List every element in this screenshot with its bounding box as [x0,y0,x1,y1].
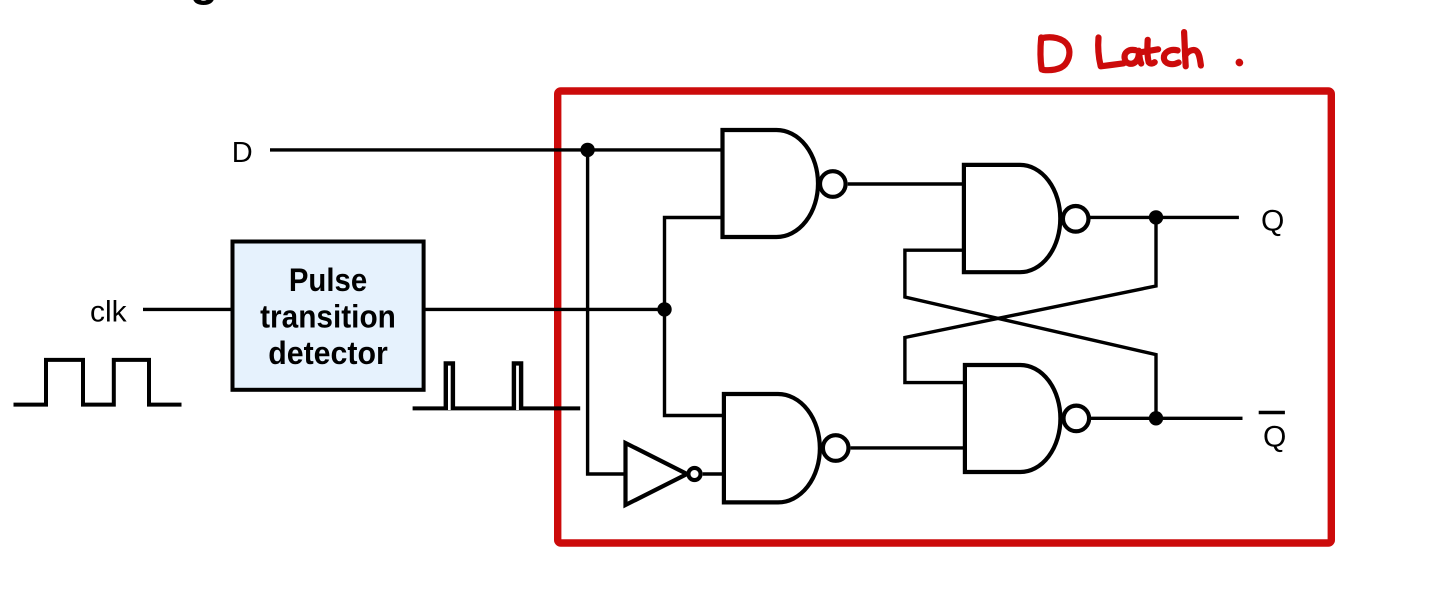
wire Qbar feedback to U2 [905,250,1156,418]
node Qbar junction [1149,411,1163,425]
NAND gate U2 (top right) body [964,165,1060,272]
NAND U2 output bubble [1063,206,1089,232]
svg-text:clk: clk [90,296,128,329]
wire clk node up to NAND1 [665,218,723,310]
wire U1 output to U2 [848,182,964,185]
wire clk input [143,308,233,311]
NAND gate U3 (bottom left) body [724,394,820,502]
NAND U4 output bubble [1064,406,1090,432]
svg-text:detector: detector [268,335,388,371]
wire U2 output to Q [1089,216,1239,219]
pulse 1 [446,363,453,410]
wire detector output to clk node [424,308,665,311]
svg-text:Pulse: Pulse [289,262,367,298]
pulse transition detector block [233,242,424,390]
wire Q feedback to U4 [905,217,1156,382]
inverter U5 [626,443,688,505]
wire D feedback to inverter [588,150,625,474]
D Latch. handwritten red title [1041,32,1240,70]
svg-text:transition: transition [260,299,396,335]
svg-text:g: g [190,0,218,6]
svg-text:Q: Q [1263,421,1286,454]
node Q junction [1149,210,1163,224]
NAND U3 output bubble [823,435,849,461]
red D-latch boundary box [558,91,1332,543]
NAND gate U1 (top left) body [723,130,818,237]
NAND U1 output bubble [820,171,846,197]
wire U5 output to U3 [703,472,724,475]
node D junction [580,143,594,157]
NAND gate U4 (bottom right) body [965,365,1061,472]
inverter U5 bubble [688,468,700,480]
node clk junction [657,302,671,316]
pulse waveform baseline [413,406,581,410]
wire U4 output to Qbar [1089,417,1242,420]
svg-text:D: D [232,137,253,169]
svg-text:Q: Q [1261,204,1284,237]
pulse 2 [514,363,521,410]
clock input waveform [14,360,182,405]
wire D input [270,148,723,151]
wire clk node down to NAND3 [665,309,724,415]
wire U3 output to U4 [851,446,965,449]
